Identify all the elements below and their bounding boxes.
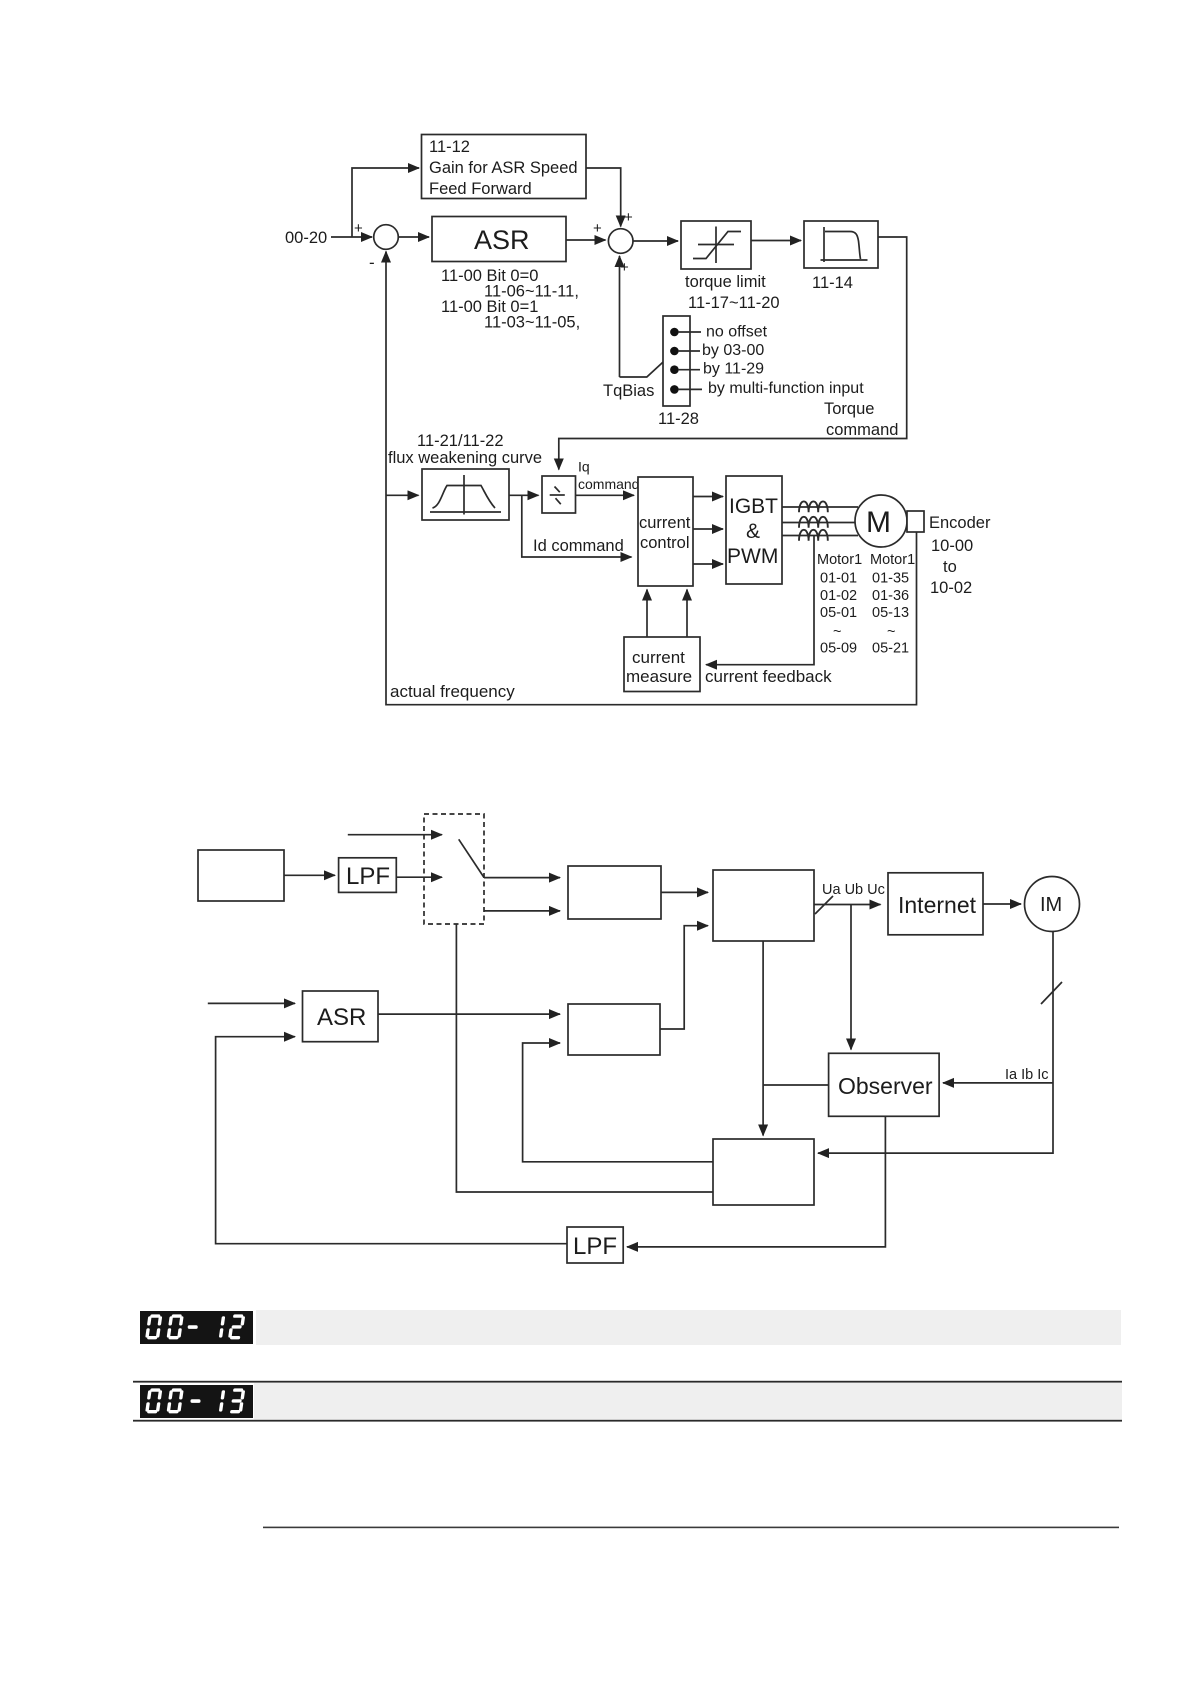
coil L1 bbox=[799, 501, 828, 512]
TqBias contact dots bbox=[670, 328, 679, 394]
svg-text:ASR: ASR bbox=[474, 225, 530, 255]
svg-text:~: ~ bbox=[833, 624, 841, 640]
svg-text:05-21: 05-21 bbox=[872, 641, 909, 657]
wire flux output to divide block bbox=[509, 494, 539, 496]
wire ASR2 to B2 bbox=[378, 1013, 560, 1015]
block reference input bbox=[198, 850, 284, 901]
svg-text:&: & bbox=[746, 520, 760, 543]
labels TqBias options bbox=[702, 324, 864, 398]
svg-text:flux weakening curve: flux weakening curve bbox=[388, 449, 542, 467]
wire B3 to Observer bbox=[850, 905, 852, 1050]
wire Observer to LPF2 bbox=[627, 1116, 885, 1247]
ASR parameter notes bbox=[441, 267, 580, 332]
wire Observer left connector bbox=[763, 1084, 829, 1086]
wires current control to IGBT bbox=[693, 497, 723, 565]
block TqBias selector bbox=[663, 316, 690, 406]
switch selector dashed box bbox=[424, 814, 484, 924]
wire branch up to 11-12 block bbox=[352, 168, 419, 237]
svg-text:Motor1: Motor1 bbox=[817, 552, 862, 568]
svg-text:+: + bbox=[624, 209, 633, 226]
wire switch box down to B4 bbox=[456, 924, 713, 1192]
svg-text:M: M bbox=[866, 506, 891, 539]
label flux weakening curve bbox=[388, 432, 542, 467]
svg-text:Observer: Observer bbox=[838, 1073, 933, 1099]
svg-text:11-17~11-20: 11-17~11-20 bbox=[688, 294, 780, 312]
block ASR bbox=[432, 217, 566, 262]
plus sign S2 top bbox=[624, 209, 633, 226]
block 11-12 Gain for ASR Speed Feed Forward bbox=[422, 135, 587, 199]
label Id command bbox=[533, 537, 624, 555]
label TqBias bbox=[603, 382, 654, 400]
DIAGRAM2 bbox=[198, 814, 1080, 1263]
svg-text:Feed Forward: Feed Forward bbox=[429, 180, 532, 198]
wire IM current down to B4 bbox=[818, 932, 1053, 1154]
svg-text:Motor1: Motor1 bbox=[870, 552, 915, 568]
svg-text:Id command: Id command bbox=[533, 537, 624, 555]
svg-text:by multi-function input: by multi-function input bbox=[708, 380, 864, 397]
wire B1 to B3 bbox=[661, 891, 708, 893]
wire ASR to S2 bbox=[566, 239, 606, 241]
svg-text:Ia Ib Ic: Ia Ib Ic bbox=[1005, 1067, 1049, 1083]
label 11-28 bbox=[658, 410, 699, 428]
svg-text:Gain for ASR Speed: Gain for ASR Speed bbox=[429, 159, 578, 177]
block B4 bbox=[713, 1139, 814, 1205]
parameter display 00-12 bbox=[140, 1311, 253, 1344]
bus slash on IM wire bbox=[1041, 982, 1062, 1004]
parameter row 00-13 top rule bbox=[133, 1381, 1122, 1383]
label current feedback bbox=[705, 667, 832, 686]
summing junction S1 bbox=[374, 225, 399, 250]
block divide Iq calc bbox=[542, 476, 576, 513]
label Encoder 10-00 to 10-02 bbox=[929, 514, 991, 597]
wire TqBias to S2 bottom bbox=[619, 256, 621, 377]
svg-text:Internet: Internet bbox=[898, 892, 977, 918]
wire 11-14 to torque command bbox=[559, 237, 907, 470]
svg-text:11-14: 11-14 bbox=[812, 274, 853, 292]
svg-text:01-35: 01-35 bbox=[872, 571, 909, 587]
parameter row 00-12 gray bar bbox=[256, 1310, 1121, 1345]
svg-text:PWM: PWM bbox=[727, 545, 778, 568]
three phase wires to motor bbox=[782, 507, 858, 536]
footer rule bbox=[263, 1527, 1119, 1529]
encoder box bbox=[907, 511, 924, 532]
svg-text:+: + bbox=[354, 220, 363, 237]
block B3 voltage command bbox=[713, 870, 814, 941]
wire S2 to torque limit bbox=[633, 240, 678, 242]
coil L2 bbox=[799, 517, 828, 528]
svg-text:05-01: 05-01 bbox=[820, 605, 857, 621]
plus sign at S1 input bbox=[354, 220, 363, 237]
svg-text:current: current bbox=[639, 514, 691, 532]
svg-text:control: control bbox=[640, 534, 690, 552]
coil L3 bbox=[799, 530, 828, 541]
wire LPF1 to switch bbox=[396, 876, 442, 878]
svg-text:IM: IM bbox=[1040, 894, 1062, 916]
block torque limit bbox=[681, 221, 751, 269]
wires current measure to current control bbox=[647, 590, 687, 638]
parameter row 00-13 bottom rule bbox=[133, 1420, 1122, 1422]
block Observer bbox=[829, 1053, 940, 1116]
label 11-14 bbox=[812, 274, 853, 292]
block Internet bbox=[888, 873, 983, 935]
svg-text:-: - bbox=[369, 253, 375, 272]
svg-text:LPF: LPF bbox=[573, 1233, 617, 1260]
svg-text:torque limit: torque limit bbox=[685, 273, 766, 291]
wire TqBias selector arm bbox=[620, 358, 669, 378]
wire actual frequency feedback loop bbox=[386, 252, 917, 705]
block IGBT and PWM bbox=[726, 476, 782, 584]
svg-text:TqBias: TqBias bbox=[603, 382, 654, 400]
wire torque limit to 11-14 bbox=[751, 240, 801, 242]
block flux weakening curve bbox=[422, 469, 509, 520]
wire B3 output to Internet bbox=[814, 904, 881, 906]
block LPF2 bbox=[567, 1227, 623, 1263]
svg-text:LPF: LPF bbox=[346, 863, 390, 890]
block B1 bbox=[568, 866, 661, 919]
svg-text:IGBT: IGBT bbox=[729, 495, 778, 518]
svg-text:~: ~ bbox=[887, 624, 895, 640]
svg-text:+: + bbox=[620, 259, 629, 276]
label Iq command bbox=[578, 459, 639, 493]
wire LPF2 feedback to ASR2 bbox=[216, 1037, 567, 1244]
DIAGRAM1 bbox=[285, 135, 991, 705]
parameter row 00-13 gray bar bbox=[254, 1383, 1122, 1420]
svg-text:command: command bbox=[826, 421, 898, 439]
wire 11-12 output to summing junction S2 bbox=[586, 168, 621, 227]
svg-text:01-36: 01-36 bbox=[872, 588, 909, 604]
plus sign S2 left bbox=[593, 220, 602, 237]
svg-text:measure: measure bbox=[626, 667, 692, 686]
wire Id command branch bbox=[522, 495, 632, 557]
svg-text:10-02: 10-02 bbox=[930, 579, 972, 597]
block current measure bbox=[624, 637, 700, 692]
svg-text:+: + bbox=[593, 220, 602, 237]
block ASR2 bbox=[303, 991, 379, 1042]
wire feedback to flux block bbox=[386, 494, 419, 496]
svg-text:by 11-29: by 11-29 bbox=[703, 361, 764, 378]
label Motor1 parameter columns bbox=[817, 552, 915, 657]
motor M bbox=[855, 495, 907, 547]
svg-text:Ua Ub Uc: Ua Ub Uc bbox=[822, 882, 885, 898]
block LPF1 bbox=[339, 858, 397, 893]
svg-text:11-12: 11-12 bbox=[429, 138, 470, 156]
bus slash Ua Ub Uc bbox=[815, 896, 833, 914]
motor IM bbox=[1025, 877, 1080, 932]
svg-text:to: to bbox=[943, 558, 957, 576]
label torque limit bbox=[685, 273, 780, 312]
plus sign S2 bottom bbox=[620, 259, 629, 276]
wire Internet to IM bbox=[983, 903, 1021, 905]
svg-text:11-03~11-05,: 11-03~11-05, bbox=[484, 314, 580, 332]
wire divide to current control bbox=[576, 494, 635, 496]
minus sign at S1 feedback input bbox=[369, 253, 375, 272]
wire to LPF1 bbox=[284, 874, 335, 876]
wire switch to block B1 lower bbox=[484, 910, 560, 912]
svg-text:01-01: 01-01 bbox=[820, 571, 857, 587]
svg-text:current: current bbox=[632, 648, 685, 667]
svg-text:command: command bbox=[578, 476, 639, 492]
block B2 bbox=[568, 1004, 660, 1055]
block current control bbox=[638, 477, 693, 586]
wire B2 up to B3 bbox=[660, 926, 708, 1029]
svg-text:current feedback: current feedback bbox=[705, 667, 832, 686]
label Ua Ub Uc bbox=[822, 882, 885, 898]
svg-text:11-21/11-22: 11-21/11-22 bbox=[417, 432, 504, 450]
svg-text:actual frequency: actual frequency bbox=[390, 682, 515, 701]
wire B4 to B2 feedback bbox=[523, 1043, 713, 1162]
svg-text:05-13: 05-13 bbox=[872, 605, 909, 621]
svg-text:Iq: Iq bbox=[578, 459, 590, 475]
wire top input to switch bbox=[348, 834, 442, 836]
svg-text:05-09: 05-09 bbox=[820, 641, 857, 657]
svg-text:00-20: 00-20 bbox=[285, 229, 327, 247]
parameter display 00-13 bbox=[140, 1385, 253, 1418]
wire B3 bottom to B4 bbox=[762, 941, 764, 1136]
label Torque command bbox=[824, 400, 898, 439]
wire input to ASR2 bbox=[208, 1002, 295, 1004]
wire 00-20 to summing junction S1 bbox=[331, 236, 372, 238]
summing junction S2 bbox=[608, 229, 633, 254]
label actual frequency bbox=[390, 682, 515, 701]
wire S1 to ASR bbox=[398, 236, 429, 238]
block 11-14 low-pass filter bbox=[804, 221, 878, 268]
label Ia Ib Ic bbox=[1005, 1067, 1049, 1083]
svg-text:10-00: 10-00 bbox=[931, 537, 973, 555]
switch blade bbox=[459, 839, 484, 877]
wires from TqBias dots bbox=[678, 332, 702, 389]
wire current to Observer bbox=[943, 1082, 1053, 1084]
node 00-20 label bbox=[285, 229, 327, 247]
wire switch to block B1 upper bbox=[484, 877, 560, 879]
svg-text:by 03-00: by 03-00 bbox=[702, 342, 764, 359]
svg-text:11-28: 11-28 bbox=[658, 410, 699, 428]
svg-text:Torque: Torque bbox=[824, 400, 874, 418]
svg-text:01-02: 01-02 bbox=[820, 588, 857, 604]
svg-text:no offset: no offset bbox=[706, 324, 768, 341]
svg-text:ASR: ASR bbox=[317, 1004, 366, 1031]
svg-text:Encoder: Encoder bbox=[929, 514, 991, 532]
wire current feedback tap bbox=[706, 536, 814, 665]
